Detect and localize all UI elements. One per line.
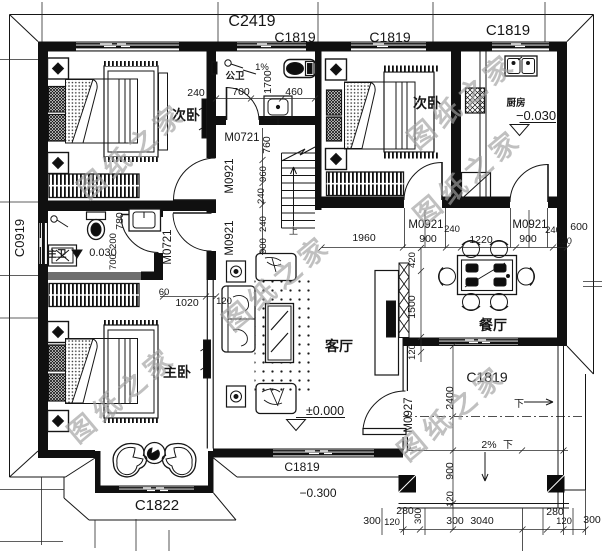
bed1 outer frame rug [104, 66, 158, 157]
eave outline left [9, 15, 11, 478]
master bed pillows [49, 345, 66, 401]
eave edge under living room [237, 476, 403, 478]
bed1 headboard pillows [49, 87, 66, 142]
svg-text:1700: 1700 [262, 70, 274, 94]
bed1 hatch top of frame [104, 61, 158, 66]
porch bottom boundary double line [399, 503, 570, 505]
kitchen appliance hatched [466, 88, 485, 113]
pubbath toilet [284, 60, 316, 78]
svg-text:300: 300 [446, 515, 464, 527]
left extension line 2 [0, 201, 38, 203]
svg-text:上: 上 [289, 226, 298, 236]
svg-text:1220: 1220 [469, 234, 493, 246]
kitchen level mark [510, 123, 556, 136]
dining chair top-left [462, 241, 480, 258]
bed2 pillows dark [327, 90, 342, 141]
mbath shower head [51, 216, 68, 227]
pubbath slope line [243, 70, 256, 74]
door M0921 bedroom2: swing arc [404, 163, 442, 201]
stair treads [282, 153, 316, 228]
kitchen sink double [505, 56, 537, 76]
svg-text:900: 900 [419, 233, 437, 245]
svg-text:240: 240 [187, 87, 205, 99]
wall V1 bedroom1/hall upper [207, 52, 217, 159]
bottom-left ext horizontal 2 [0, 541, 63, 543]
porch outline below bay: left vertical [63, 477, 65, 498]
kitchen corner base unit [462, 173, 491, 200]
bed1 hatch bottom of frame [104, 157, 158, 162]
dining chair bottom-right [490, 294, 508, 311]
axis line top 2 [217, 2, 219, 42]
svg-text:780: 780 [114, 212, 126, 230]
tv wall dim line [418, 245, 424, 362]
stair dim line vertical [260, 128, 266, 255]
wall H4 segment left [322, 197, 405, 209]
svg-text:300: 300 [413, 508, 424, 524]
master bed foot lines [119, 339, 130, 404]
door M0921 kitchen: leaf [547, 164, 549, 202]
dining place settings [466, 264, 510, 286]
door M0927 entrance: leaf [363, 429, 406, 435]
window C1819 dining room bottom [437, 338, 520, 347]
porch column right [547, 475, 565, 493]
bottom ext line col left [424, 508, 426, 535]
eave outline top [10, 14, 594, 16]
door M0921 bedroom1: swing arc [174, 158, 216, 200]
window C1819 bedroom2 top [349, 42, 428, 52]
living level mark [287, 418, 346, 431]
porch outline below bay: diagonal [64, 498, 89, 520]
bed2 rug hatch bottom [382, 153, 438, 159]
sofa single bottom [256, 384, 296, 414]
left wall lower segment [38, 266, 48, 458]
window C2419 top [74, 42, 181, 52]
svg-text:M0921: M0921 [512, 219, 547, 231]
wall V3 stair right [315, 52, 322, 211]
bottom ext line col right [542, 508, 544, 535]
svg-text:C1819: C1819 [369, 29, 410, 45]
svg-text:1%: 1% [255, 62, 269, 73]
dining chair left [439, 268, 456, 286]
door M0921 bedroom1: leaf [173, 199, 216, 201]
door M0721 master bath: swing arc [121, 215, 159, 253]
bay armchair left [113, 444, 147, 477]
porch column left [399, 475, 417, 493]
porch center vertical dim line [450, 343, 456, 530]
svg-text:−0.030: −0.030 [516, 108, 556, 123]
bottom dim line [399, 527, 589, 533]
top wall right corner [551, 42, 567, 52]
eave bottom-left edge [10, 476, 66, 478]
bed1 blanket fold [72, 80, 97, 144]
svg-text:280: 280 [396, 505, 414, 517]
bay right wall [208, 451, 214, 493]
bed2 blanket fold [351, 83, 375, 149]
bottom-left ext line 1 [41, 477, 43, 545]
bed2m nightstand bottom [48, 411, 69, 432]
stair up arrow [291, 167, 297, 226]
svg-text:下: 下 [503, 440, 513, 451]
mbath niche basin [129, 209, 161, 231]
wall H4 segment middle [442, 197, 510, 209]
bedroom2 wardrobe [327, 172, 404, 196]
bed1 mattress [66, 79, 138, 143]
sofa single top [256, 254, 296, 281]
svg-text:700: 700 [232, 86, 250, 98]
left wall upper segment [38, 42, 48, 222]
porch outline below bay: bottom edge [89, 519, 236, 521]
svg-text:C1822: C1822 [135, 497, 179, 514]
svg-text:1020: 1020 [175, 297, 199, 309]
bottom ext line porch left [403, 508, 405, 535]
eave outline right [593, 15, 595, 375]
bed2 nightstand top [326, 59, 347, 80]
porch right boundary double line [557, 346, 559, 508]
sofa 3-seat [222, 286, 255, 352]
dining table [458, 256, 517, 295]
pubbath dim line [213, 96, 318, 102]
bed2 nightstand bottom [326, 149, 347, 170]
bottom ext line terrace right [585, 490, 587, 535]
bottom-left ext line 4 [168, 530, 170, 551]
svg-text:240: 240 [258, 216, 269, 232]
sofa side table bottom [227, 386, 246, 407]
wall V2 bath right upper stub [154, 211, 163, 217]
door M0921 bedroom2: leaf [441, 162, 443, 200]
svg-text:900: 900 [258, 238, 269, 254]
master bed rug hatch bottom [104, 418, 158, 423]
bay bottom pier right [196, 486, 208, 494]
master bed outer frame rug [104, 325, 158, 418]
bed1 side cabinet [159, 73, 168, 150]
door M0921 master bedroom: leaf [173, 212, 212, 214]
wall H3 pubbath bottom right [259, 116, 322, 125]
dining chair bottom-left [462, 294, 480, 311]
svg-text:主卫: 主卫 [47, 248, 67, 260]
master wardrobe [49, 284, 139, 307]
porch outline below bay: right diagonal [214, 493, 237, 520]
kitchen counter edge lines [461, 52, 486, 200]
svg-text:C1819: C1819 [486, 22, 530, 39]
svg-text:M0921: M0921 [224, 220, 236, 255]
door edge ext lines dining [405, 208, 548, 248]
terrace right step line [564, 489, 586, 491]
bed1 foot lines [119, 79, 130, 143]
wall V1 middle stub [207, 200, 217, 214]
dining chair right [518, 268, 535, 286]
bottom-left ext line 2 [94, 520, 96, 548]
svg-text:240: 240 [256, 188, 267, 204]
bed1 frame inner [108, 71, 154, 152]
terrace right outline [585, 374, 587, 490]
svg-text:下: 下 [514, 399, 524, 410]
wall V5 porch left upper [403, 346, 404, 391]
sofa carpet dotted [255, 276, 316, 392]
svg-text:C1819: C1819 [284, 460, 320, 474]
eave diagonal right of bay [214, 458, 238, 477]
porch inner dim line [405, 448, 568, 454]
window C1822 bay bottom [117, 486, 196, 494]
master bed mattress [66, 339, 138, 404]
svg-text:300: 300 [363, 515, 381, 527]
svg-text:960: 960 [258, 166, 269, 182]
svg-text:120: 120 [556, 516, 572, 527]
wall H1 bedroom1 bottom / bath top [38, 201, 216, 212]
svg-text:120: 120 [407, 344, 418, 360]
svg-text:1500: 1500 [406, 295, 418, 319]
coffee table [266, 304, 294, 363]
svg-text:3040: 3040 [470, 515, 494, 527]
bottom-left ext line 3 [135, 519, 137, 551]
bed2 pillow dotted [345, 83, 372, 149]
bed2 foot lines [396, 82, 407, 149]
bottom ext line porch right [563, 508, 565, 535]
bottom-left ext horizontal 1 [0, 489, 64, 491]
bay left wall [95, 451, 101, 493]
door M0921 kitchen: swing arc [510, 165, 548, 203]
window C1819 kitchen top [490, 42, 551, 52]
wall H3 pubbath bottom left [207, 116, 227, 125]
wall V4 bedroom2/kitchen [451, 52, 461, 197]
svg-text:120: 120 [384, 517, 400, 528]
door M0721 public bath: leaf [226, 87, 228, 120]
mbath toilet [87, 212, 106, 240]
bed2 outer frame rug [384, 72, 434, 152]
eave diagonal to bay left [66, 458, 96, 477]
TV cabinet [375, 271, 399, 376]
porch axis dash-dot line [403, 416, 585, 418]
eave corner diagonal BL [10, 451, 39, 477]
dining bottom wall left segment [403, 338, 438, 347]
porch slope arrow down [482, 452, 488, 481]
bay armchair right [162, 444, 196, 477]
svg-text:C1819: C1819 [274, 29, 315, 45]
svg-text:2%: 2% [481, 439, 496, 451]
master bed frame inner [108, 330, 154, 413]
bottom ext line right inner [572, 508, 574, 535]
svg-text:700: 700 [108, 254, 119, 270]
window C1819 living room bottom [271, 449, 376, 458]
bay armchair left inner [117, 447, 143, 474]
master bed pillow dotted [66, 339, 94, 403]
wall H2 bath bottom [38, 272, 48, 281]
stair break line [282, 147, 316, 161]
eave corner diagonal TL [10, 15, 39, 42]
svg-text:C2419: C2419 [228, 13, 275, 30]
svg-text:−0.300: −0.300 [299, 486, 336, 500]
window C1819 pubbath top [235, 42, 308, 52]
svg-text:M0721: M0721 [224, 132, 259, 144]
door M0721 master bath: leaf [121, 214, 159, 216]
eave corner diagonal BR [567, 346, 594, 374]
svg-text:60: 60 [159, 287, 170, 298]
svg-text:1960: 1960 [352, 232, 376, 244]
mbath level triangle [72, 250, 82, 258]
pubbath shower head [225, 60, 243, 68]
svg-text:公卫: 公卫 [225, 71, 245, 82]
svg-text:900: 900 [519, 233, 537, 245]
master bed rug hatch top [104, 320, 158, 325]
bay bottom pier left [100, 486, 117, 494]
right wall [557, 42, 567, 347]
door M0921 master bedroom: swing arc [173, 214, 212, 252]
master TV on wall [201, 340, 211, 378]
master bed blanket fold [72, 339, 97, 403]
svg-text:300: 300 [583, 514, 601, 526]
svg-text:420: 420 [407, 252, 418, 268]
svg-text:C0919: C0919 [12, 219, 27, 257]
svg-text:600: 600 [570, 221, 588, 233]
dining chair top-right [490, 241, 508, 258]
top wall segment left corner [38, 42, 74, 52]
door M0927 entrance: swing arc [363, 391, 406, 429]
svg-text:M0921: M0921 [224, 158, 236, 193]
bay armchair right inner [166, 447, 192, 474]
bed1 pillow area dotted [66, 80, 94, 144]
svg-text:460: 460 [285, 86, 303, 98]
TV screen [387, 301, 396, 337]
svg-text:客厅: 客厅 [324, 338, 353, 354]
hall-dining dim line [319, 245, 571, 251]
TV wall xhatch [399, 263, 409, 338]
wall master/living partition double line [207, 280, 213, 449]
bed1 nightstand top [48, 58, 69, 79]
living room bottom wall right segment [376, 449, 403, 458]
sofa side table top [227, 261, 246, 282]
svg-text:M0721: M0721 [162, 229, 174, 264]
wall V2 bath right lower [154, 253, 163, 280]
eave corner diagonal TR [567, 15, 594, 42]
axis line top 1 [41, 2, 43, 42]
living room bottom wall left segment [213, 449, 271, 458]
left extension line 3 [0, 275, 38, 277]
porch step arrow right [524, 399, 553, 405]
axis line top 4 [432, 2, 434, 42]
top wall pier between C1819 and C1819 [308, 42, 349, 52]
left extension line 4 [0, 317, 38, 319]
top wall pier between C2419 and C1819 [181, 42, 235, 52]
bay round table [144, 443, 165, 464]
wall V1 lower stub [207, 251, 217, 280]
svg-text:200: 200 [108, 233, 119, 249]
svg-text:餐厅: 餐厅 [478, 317, 507, 333]
wall H4 segment right [548, 197, 567, 209]
svg-text:120: 120 [556, 236, 572, 247]
left extension line 1 [0, 59, 38, 61]
svg-text:120: 120 [445, 491, 456, 507]
mbath washbasin [49, 245, 77, 266]
bed2 rug hatch top [382, 66, 438, 72]
master bedroom bottom wall [38, 450, 95, 458]
bottom ext line porch mid [522, 508, 524, 551]
axis line top 5 [544, 2, 546, 42]
stair left edge [281, 153, 283, 228]
master entry dim line [160, 294, 219, 300]
svg-text:760: 760 [261, 136, 273, 154]
window C0919 left wall [38, 221, 48, 266]
top wall pier between bedroom2 window and kitchen window [428, 42, 490, 52]
bottom ext line far left [381, 508, 383, 535]
dining bottom wall right segment [520, 338, 567, 347]
door M0721 public bath: swing arc [227, 88, 260, 121]
svg-text:240: 240 [444, 224, 460, 235]
bed1 nightstand bottom [48, 153, 69, 174]
pubbath washbasin [264, 96, 292, 125]
wall V5 porch left lower stub [403, 437, 404, 451]
svg-text:240: 240 [545, 225, 561, 236]
bed2m nightstand top [48, 322, 69, 343]
right wall break marks [583, 282, 602, 287]
bedroom1 wardrobe [49, 174, 139, 198]
bedroom1 TV on wall [199, 99, 207, 138]
axis line top 3 [317, 2, 319, 42]
svg-text:±0.000: ±0.000 [306, 404, 344, 418]
pubbath door jamb block [212, 62, 217, 74]
bed2 mattress [345, 82, 416, 149]
svg-text:900: 900 [444, 462, 456, 480]
